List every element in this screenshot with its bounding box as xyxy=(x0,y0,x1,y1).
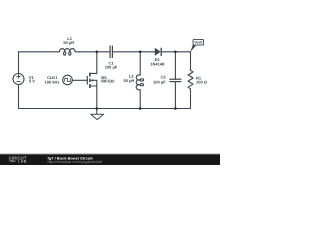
wire top D1 to Vout corner xyxy=(161,51,190,53)
svg-text:100 µF: 100 µF xyxy=(105,65,118,70)
wire M1 drain xyxy=(90,52,97,74)
wire C2 top xyxy=(174,52,176,79)
wire M1 source xyxy=(90,86,97,109)
node L2 bottom junction xyxy=(139,107,142,110)
labels xyxy=(29,36,208,85)
wire C2 bottom xyxy=(174,82,176,109)
wire top C1 to D1 xyxy=(112,51,154,53)
svg-text:Vout: Vout xyxy=(194,41,203,45)
inductor L1 xyxy=(59,49,75,56)
svg-text:100 µF: 100 µF xyxy=(153,79,166,84)
wire left vertical lower xyxy=(18,85,20,109)
wire L2 top xyxy=(139,52,141,75)
wire top L1 to C1 xyxy=(75,51,110,53)
ground xyxy=(91,109,104,120)
svg-text:1N4148: 1N4148 xyxy=(150,61,165,66)
node C2 bottom junction xyxy=(174,107,177,110)
footer bar xyxy=(0,153,220,165)
voltage source V1 xyxy=(13,74,24,85)
svg-text:100 kHz: 100 kHz xyxy=(45,80,60,85)
svg-text:http://circuitlab.com/cyqgzkxb: http://circuitlab.com/cyqgzkxbvfa8 xyxy=(48,160,103,164)
nmos transistor M1 xyxy=(87,73,97,88)
capacitor C1 xyxy=(110,46,112,58)
svg-text:100 Ω: 100 Ω xyxy=(196,80,208,85)
resistor R1 xyxy=(188,70,193,89)
diode D1 xyxy=(155,48,161,56)
node Vout flag xyxy=(190,39,203,52)
node ground junction xyxy=(96,107,99,110)
node C2 top junction xyxy=(174,51,177,54)
node L2 top junction xyxy=(139,51,142,54)
clock source CLK1 xyxy=(63,75,73,85)
svg-text:5 V: 5 V xyxy=(29,79,35,84)
wire top left horizontal xyxy=(19,51,60,53)
capacitor C2 xyxy=(169,79,181,81)
wire clk to gate xyxy=(72,79,87,81)
svg-text:50 µH: 50 µH xyxy=(124,78,135,83)
wire R1 bottom xyxy=(190,89,192,109)
wire L2 bottom xyxy=(139,90,141,109)
inductor L2 xyxy=(136,75,143,90)
svg-text:50 µH: 50 µH xyxy=(63,40,74,45)
svg-text:IRF530: IRF530 xyxy=(101,78,115,83)
wire R1 top xyxy=(190,52,192,70)
wire bottom rail xyxy=(19,108,191,110)
svg-text:LAB: LAB xyxy=(18,160,27,164)
node M1 drain / top wire junction xyxy=(96,51,99,54)
wire left vertical upper xyxy=(18,52,20,74)
